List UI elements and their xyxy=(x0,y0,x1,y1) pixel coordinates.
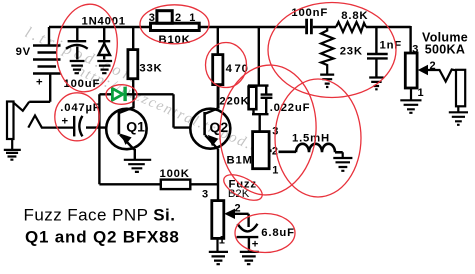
potentiometer VR4 fuzz xyxy=(212,201,224,239)
resistor R2 470 xyxy=(213,28,223,109)
svg-text:100nF: 100nF xyxy=(291,7,328,19)
svg-text:+: + xyxy=(36,77,43,89)
svg-text:1nF: 1nF xyxy=(380,39,402,51)
top rail wire xyxy=(49,26,411,53)
ground C5 xyxy=(369,78,383,90)
wiper arrow VR3 xyxy=(418,65,428,75)
ground L1 xyxy=(333,152,352,171)
diode D2 green xyxy=(112,87,126,101)
resistor R6 23K xyxy=(321,28,334,74)
ground Q1 xyxy=(124,160,151,172)
diode D1 1N4001 xyxy=(98,27,110,60)
svg-text:100uF: 100uF xyxy=(64,78,101,90)
svg-text:8.8K: 8.8K xyxy=(341,10,368,22)
wiper arrow VR4 xyxy=(224,209,235,219)
resistor R5 8.8K xyxy=(336,22,366,32)
annotation ellipse E4 xyxy=(55,93,99,141)
inductor L1 1.5mH xyxy=(279,144,343,152)
svg-text:33K: 33K xyxy=(139,63,162,75)
annotation ellipse E9 xyxy=(235,214,295,253)
svg-text:+: + xyxy=(62,116,69,128)
resistor R1 33K xyxy=(128,28,138,94)
annotation ellipse E8 xyxy=(220,170,266,206)
svg-text:3: 3 xyxy=(412,43,418,55)
annotation ellipse E1 xyxy=(52,1,122,96)
wire riser to 220K network xyxy=(258,27,260,86)
ground VR4 xyxy=(209,238,228,264)
svg-text:Q2: Q2 xyxy=(210,119,229,135)
ground D1 xyxy=(97,61,112,73)
capacitor C3 .022uF xyxy=(261,86,273,115)
svg-text:Q1 and Q2 BFX88: Q1 and Q2 BFX88 xyxy=(25,228,180,247)
annotation ellipse E7b xyxy=(275,79,361,197)
svg-text:100K: 100K xyxy=(160,168,190,180)
svg-text:1N4001: 1N4001 xyxy=(82,16,126,28)
capacitor C4 100nF xyxy=(307,19,312,35)
ground R6 xyxy=(320,75,334,87)
battery B1 9V xyxy=(29,27,60,102)
svg-text:6.8uF: 6.8uF xyxy=(261,227,295,239)
ground C2 xyxy=(70,61,85,73)
svg-text:500KA: 500KA xyxy=(425,43,465,57)
ground VR3 xyxy=(400,88,421,113)
watermark xyxy=(22,24,260,156)
annotation ellipse E5 xyxy=(106,85,137,105)
annotation ellipse E3 xyxy=(206,43,247,88)
potentiometer VR1 B10K xyxy=(151,11,200,31)
annotation ellipse E7a xyxy=(216,62,321,198)
ground J2 xyxy=(449,106,468,125)
svg-text:Q1: Q1 xyxy=(126,119,145,135)
annotation ellipse E2 xyxy=(140,5,209,44)
transistor Q1 xyxy=(106,94,146,160)
annotation ellipse E6 xyxy=(268,3,396,98)
svg-text:1: 1 xyxy=(189,12,195,24)
capacitor C6 6.8uF xyxy=(235,214,258,251)
svg-text:1: 1 xyxy=(219,235,225,247)
resistor R3 100K xyxy=(99,128,218,190)
svg-text:3: 3 xyxy=(149,12,155,24)
svg-text:3: 3 xyxy=(202,189,208,201)
potentiometer VR2 B1M xyxy=(253,132,272,169)
wire volume to jack xyxy=(428,70,456,82)
svg-text:23K: 23K xyxy=(340,46,363,58)
capacitor C2 100uF xyxy=(66,27,88,60)
capacitor C1 .047uF xyxy=(74,116,107,136)
ground C6 xyxy=(240,252,259,264)
svg-text:.047µF: .047µF xyxy=(60,102,100,114)
output jack J2 xyxy=(456,70,465,107)
svg-text:+: + xyxy=(252,238,259,250)
input jack J1 xyxy=(7,102,73,140)
svg-text:.022uF: .022uF xyxy=(270,102,311,114)
ground input jack xyxy=(4,139,21,160)
transistor Q2 xyxy=(190,85,230,201)
potentiometer VR3 volume xyxy=(405,53,417,88)
capacitor C5 1nF xyxy=(367,28,388,77)
svg-text:2: 2 xyxy=(175,12,181,24)
resistor R4 220K xyxy=(248,86,269,132)
svg-text:1: 1 xyxy=(418,87,424,99)
svg-text:B1M: B1M xyxy=(227,155,253,167)
svg-text:1.5mH: 1.5mH xyxy=(292,133,330,145)
wire node A xyxy=(99,94,190,127)
svg-text:1: 1 xyxy=(272,164,278,176)
svg-text:9V: 9V xyxy=(16,46,31,58)
svg-text:Fuzz Face PNP Si.: Fuzz Face PNP Si. xyxy=(24,206,176,225)
